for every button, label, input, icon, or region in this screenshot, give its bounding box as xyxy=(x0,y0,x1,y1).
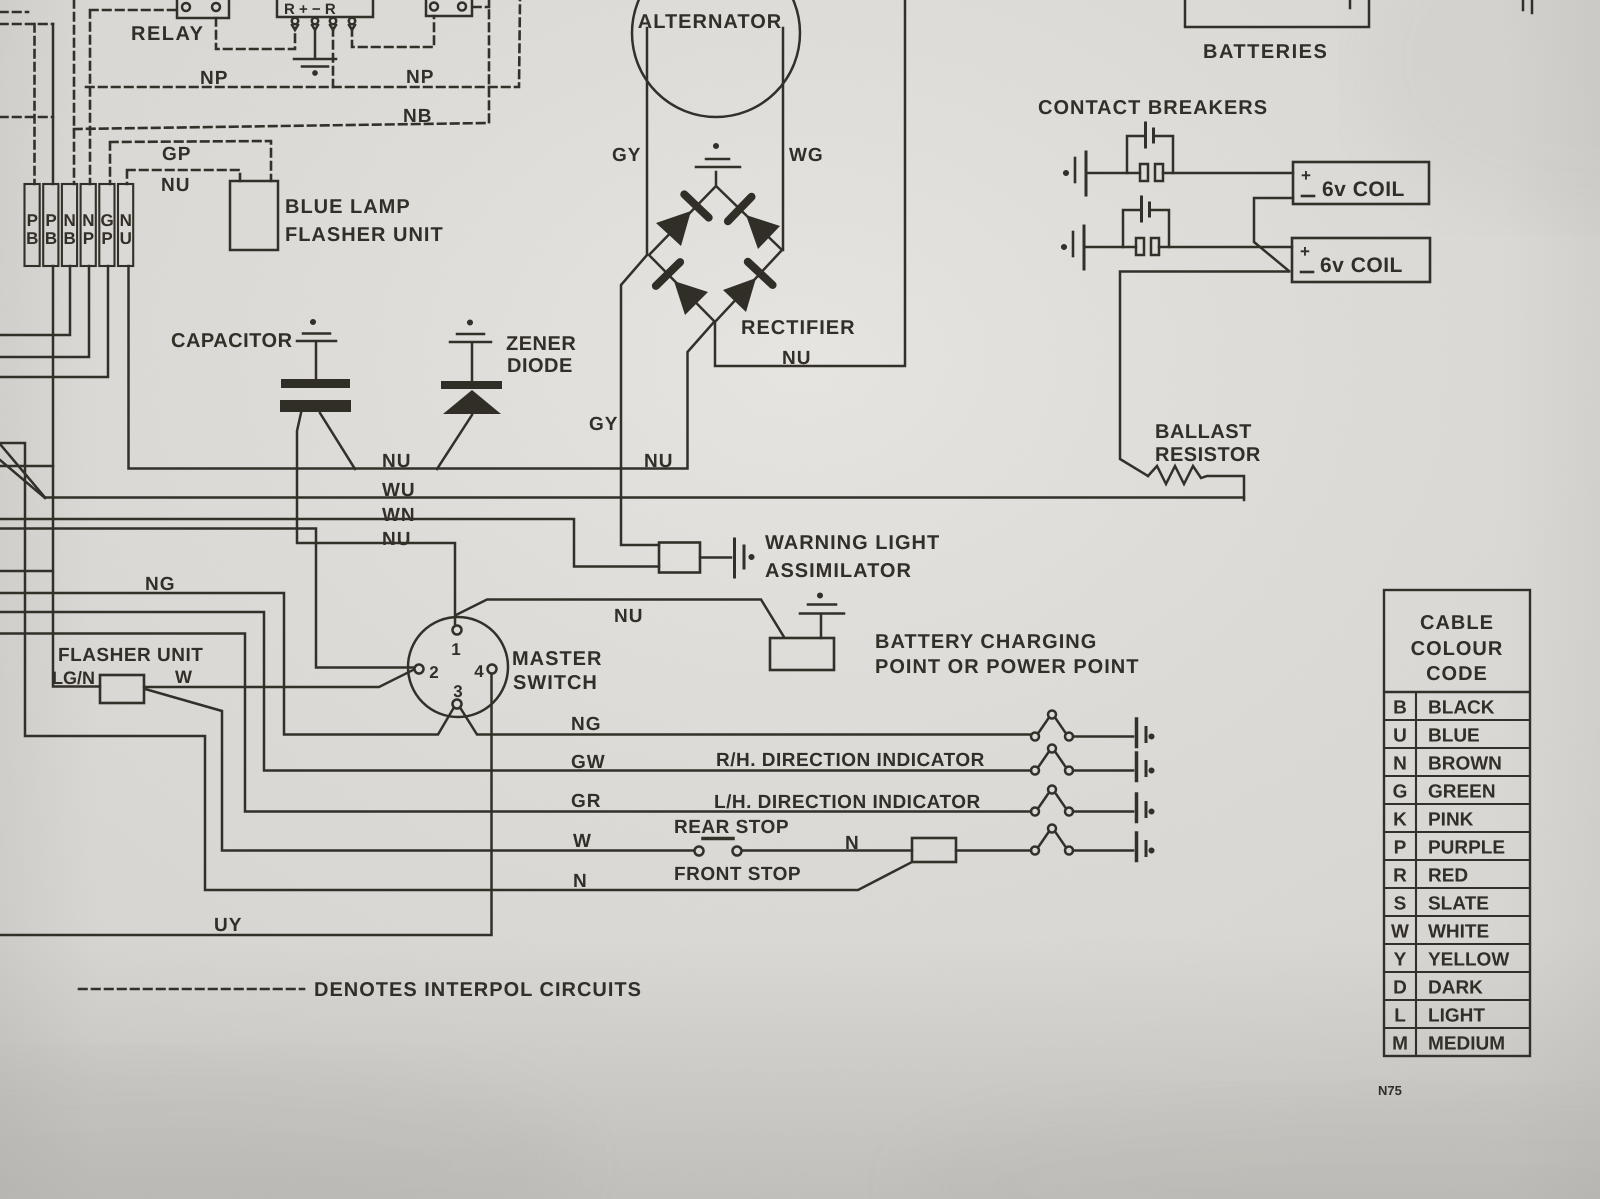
wire dashed strip3 riser xyxy=(73,0,76,184)
wire alternator WG lead xyxy=(782,28,785,250)
contact breaker 2 xyxy=(1084,197,1169,255)
svg-text:BLUE: BLUE xyxy=(1428,726,1480,747)
svg-text:LG/N: LG/N xyxy=(52,668,95,688)
master switch terminal 2 xyxy=(415,665,424,674)
svg-text:+: + xyxy=(1301,166,1311,185)
svg-text:BATTERY CHARGING: BATTERY CHARGING xyxy=(875,631,1097,653)
svg-text:4: 4 xyxy=(474,662,484,681)
svg-text:G: G xyxy=(100,211,113,230)
capacitor earth xyxy=(297,320,336,341)
svg-text:N: N xyxy=(120,211,132,230)
zener earth xyxy=(450,321,491,342)
svg-text:ASSIMILATOR: ASSIMILATOR xyxy=(765,560,912,582)
svg-text:S: S xyxy=(1394,894,1407,915)
svg-text:BROWN: BROWN xyxy=(1428,754,1502,775)
wire dashed box3 to NB xyxy=(473,6,489,9)
svg-text:Y: Y xyxy=(1394,950,1407,971)
svg-text:DARK: DARK xyxy=(1428,978,1483,999)
svg-text:WU: WU xyxy=(382,480,416,501)
assimilator terminal xyxy=(735,539,754,577)
svg-text:NU: NU xyxy=(644,451,673,472)
svg-text:6v COIL: 6v COIL xyxy=(1320,254,1403,277)
svg-text:CONTACT BREAKERS: CONTACT BREAKERS xyxy=(1038,97,1268,119)
svg-text:P: P xyxy=(45,211,56,230)
wire rectifier NU output right loop xyxy=(715,0,905,366)
flasher unit box xyxy=(100,675,144,703)
battery charging point earth xyxy=(800,594,844,638)
rectifier centre earth xyxy=(696,144,740,186)
svg-text:GW: GW xyxy=(571,752,606,773)
svg-text:NU: NU xyxy=(782,348,811,369)
wire master switch NU to charging point xyxy=(456,600,784,638)
svg-text:G: G xyxy=(1393,782,1408,803)
master switch terminal 3 xyxy=(453,700,462,709)
svg-text:MASTER: MASTER xyxy=(512,648,602,670)
svg-text:W: W xyxy=(1391,922,1409,943)
capacitor xyxy=(280,343,351,412)
svg-text:SLATE: SLATE xyxy=(1428,894,1489,915)
svg-text:RECTIFIER: RECTIFIER xyxy=(741,317,856,339)
svg-text:WN: WN xyxy=(382,505,416,526)
switch row GW xyxy=(1031,745,1133,775)
svg-text:B: B xyxy=(64,229,76,248)
wire NG net left and to terminal3 xyxy=(0,593,453,735)
svg-text:BLACK: BLACK xyxy=(1428,698,1495,719)
rectifier regulator box xyxy=(277,0,373,17)
wire coil2 minus to ballast xyxy=(1120,272,1289,477)
svg-text:W: W xyxy=(175,667,192,687)
svg-text:MEDIUM: MEDIUM xyxy=(1428,1034,1505,1055)
wire dashed NU to flasher box xyxy=(127,170,240,184)
svg-text:NU: NU xyxy=(382,451,411,472)
wire dashed regulator minus to NP xyxy=(332,28,335,87)
wire strip3 exit left xyxy=(0,266,70,335)
svg-text:+: + xyxy=(1300,242,1310,261)
svg-text:6v COIL: 6v COIL xyxy=(1322,178,1405,201)
battery charging point box xyxy=(770,638,834,670)
svg-text:NB: NB xyxy=(403,106,432,127)
wire flasher W to master terminal2 xyxy=(144,670,413,687)
svg-text:PURPLE: PURPLE xyxy=(1428,838,1505,859)
wire dashed strip5 riser xyxy=(110,141,271,184)
svg-text:R: R xyxy=(1393,866,1407,887)
wire master terminal2 feed xyxy=(0,529,414,668)
contact breaker 2 earth xyxy=(1062,226,1084,269)
battery terminal marks top right xyxy=(1523,0,1532,13)
switch row NG xyxy=(1031,711,1133,741)
wire capacitor left leg and NU2 line xyxy=(297,413,455,624)
svg-text:DIODE: DIODE xyxy=(507,355,573,377)
6v coil 1 xyxy=(1293,162,1429,204)
svg-text:GREEN: GREEN xyxy=(1428,782,1496,803)
wire strip5 exit left xyxy=(0,266,108,377)
svg-text:P: P xyxy=(27,211,38,230)
wire NU1 strip6 to rectifier xyxy=(129,266,715,469)
wire dashed horizontal to strip2 top xyxy=(0,23,53,26)
svg-text:K: K xyxy=(1393,810,1407,831)
svg-text:FLASHER UNIT: FLASHER UNIT xyxy=(58,645,203,666)
svg-text:GP: GP xyxy=(162,144,191,165)
wire dashed denotes-interpol sample xyxy=(79,988,304,991)
svg-text:BATTERIES: BATTERIES xyxy=(1203,41,1328,63)
svg-text:ALTERNATOR: ALTERNATOR xyxy=(638,11,782,33)
svg-text:RESISTOR: RESISTOR xyxy=(1155,444,1261,466)
svg-text:UY: UY xyxy=(214,915,242,936)
svg-text:B: B xyxy=(1393,698,1407,719)
svg-text:COLOUR: COLOUR xyxy=(1411,638,1504,660)
lamp terminal row NG xyxy=(1137,719,1154,747)
wire dashed NP line xyxy=(86,0,520,87)
lamp terminal row GW xyxy=(1137,753,1154,781)
contact breaker 1 earth xyxy=(1064,152,1086,195)
batteries box xyxy=(1185,0,1369,27)
svg-text:B: B xyxy=(45,229,57,248)
svg-text:2: 2 xyxy=(429,663,438,682)
svg-text:WHITE: WHITE xyxy=(1428,922,1489,943)
svg-text:N: N xyxy=(845,833,859,854)
svg-text:P: P xyxy=(83,229,94,248)
wire rear stop to fuse xyxy=(742,849,912,852)
wire dashed stub top-left xyxy=(0,11,28,14)
wire WU line xyxy=(45,496,1244,499)
ballast resistor zigzag xyxy=(1148,466,1244,500)
svg-text:P: P xyxy=(1394,838,1407,859)
svg-text:D: D xyxy=(1393,978,1407,999)
wire assimilator to terminal xyxy=(700,556,731,559)
wire GW net xyxy=(0,612,1031,771)
svg-text:N75: N75 xyxy=(1378,1083,1402,1098)
wire NB/GP dashed line xyxy=(74,0,489,129)
svg-text:NU: NU xyxy=(161,175,190,196)
wire zener leg xyxy=(437,415,472,469)
zener diode xyxy=(441,344,502,414)
svg-text:L/H. DIRECTION INDICATOR: L/H. DIRECTION INDICATOR xyxy=(714,792,981,813)
wire capacitor right leg xyxy=(320,413,355,469)
wire horizontal into strip2 vertical at y466 xyxy=(0,465,53,468)
lamp terminal row GR xyxy=(1137,794,1154,822)
svg-text:RED: RED xyxy=(1428,866,1468,887)
diode bottom-right xyxy=(723,262,773,312)
svg-text:DENOTES INTERPOL CIRCUITS: DENOTES INTERPOL CIRCUITS xyxy=(314,979,642,1001)
wire WN line to assimilator xyxy=(0,519,659,567)
wire left feed joining LG/N at y571 xyxy=(0,570,52,573)
svg-text:LIGHT: LIGHT xyxy=(1428,1006,1485,1027)
svg-text:NG: NG xyxy=(145,574,176,595)
svg-text:3: 3 xyxy=(453,682,462,701)
svg-text:BLUE LAMP: BLUE LAMP xyxy=(285,196,411,218)
rear stop contacts xyxy=(695,839,742,856)
svg-text:L: L xyxy=(1394,1006,1406,1027)
connector block xyxy=(25,184,134,266)
svg-text:BALLAST: BALLAST xyxy=(1155,421,1252,443)
contact breaker 1 xyxy=(1086,123,1173,181)
svg-text:N: N xyxy=(82,211,94,230)
svg-text:POINT OR POWER POINT: POINT OR POWER POINT xyxy=(875,656,1139,678)
fuse box stop lamps xyxy=(912,838,956,862)
wire dashed regulator R to box3 xyxy=(352,16,434,47)
wire diagonal feed into WU xyxy=(0,444,45,498)
diode top-left xyxy=(656,194,709,246)
svg-text:CAPACITOR: CAPACITOR xyxy=(171,330,293,352)
svg-text:RELAY: RELAY xyxy=(131,23,204,45)
master switch terminal 1 xyxy=(453,626,462,635)
svg-text:U: U xyxy=(120,229,132,248)
svg-text:B: B xyxy=(26,229,38,248)
diode bottom-left xyxy=(656,262,708,315)
switch row GR xyxy=(1031,786,1133,816)
wire dashed strip1 riser xyxy=(33,24,36,184)
master switch circle xyxy=(408,617,508,717)
svg-text:SWITCH: SWITCH xyxy=(513,672,598,694)
svg-text:PINK: PINK xyxy=(1428,810,1474,831)
svg-text:NU: NU xyxy=(382,529,411,550)
rectifier bridge diamond xyxy=(649,186,782,322)
svg-text:YELLOW: YELLOW xyxy=(1428,950,1509,971)
svg-text:P: P xyxy=(101,229,112,248)
svg-text:N: N xyxy=(573,871,587,892)
svg-text:GY: GY xyxy=(589,414,618,435)
svg-text:R/H. DIRECTION INDICATOR: R/H. DIRECTION INDICATOR xyxy=(716,750,985,771)
svg-text:W: W xyxy=(573,831,591,852)
wire alternator GY lead xyxy=(621,28,659,545)
wire strip2 to LG/N flasher feed xyxy=(53,24,100,687)
svg-text:GY: GY xyxy=(612,145,641,166)
alternator circle xyxy=(632,0,800,117)
blue lamp flasher unit box xyxy=(230,181,278,250)
wire fuse to switch row4 xyxy=(956,849,1031,852)
svg-text:CODE: CODE xyxy=(1426,663,1488,685)
svg-text:GR: GR xyxy=(571,791,602,812)
regulator terminal pins xyxy=(292,18,355,30)
svg-text:NG: NG xyxy=(571,714,602,735)
wire breaker1 to coil1 xyxy=(1163,172,1293,175)
wire coil1 minus to coil2 minus xyxy=(1254,198,1293,271)
svg-text:NU: NU xyxy=(614,606,643,627)
wire flasher W to rear stop xyxy=(145,689,694,851)
svg-text:N: N xyxy=(1393,754,1407,775)
wire strip4 exit left xyxy=(0,266,89,357)
warning light assimilator box xyxy=(659,543,700,573)
switch row W xyxy=(1031,825,1133,855)
master switch terminal 4 xyxy=(488,665,497,674)
wire GR net xyxy=(0,634,1031,812)
wire NG row right of terminal3 xyxy=(461,709,1030,735)
wire front-stop chain from left box xyxy=(25,466,912,890)
ammeter box xyxy=(426,0,472,16)
lamp terminal row W xyxy=(1137,833,1154,861)
svg-text:ZENER: ZENER xyxy=(506,333,576,355)
wire master terminal4 down to UY xyxy=(0,674,492,935)
svg-text:REAR STOP: REAR STOP xyxy=(674,817,789,838)
svg-text:CABLE: CABLE xyxy=(1420,612,1494,634)
cable colour code table xyxy=(1384,590,1530,1056)
node connector box at left edge xyxy=(0,443,25,466)
svg-text:U: U xyxy=(1393,726,1407,747)
svg-text:FLASHER UNIT: FLASHER UNIT xyxy=(285,224,444,246)
svg-text:1: 1 xyxy=(451,640,460,659)
svg-text:FRONT STOP: FRONT STOP xyxy=(674,864,801,885)
wire breaker2 to coil2 plus xyxy=(1159,246,1292,249)
svg-text:M: M xyxy=(1392,1034,1408,1055)
relay box xyxy=(177,0,229,18)
svg-text:WG: WG xyxy=(789,145,824,166)
wire dashed relay right leg xyxy=(216,18,295,49)
wire dashed strip4 riser to relay xyxy=(90,10,177,184)
svg-text:N: N xyxy=(64,211,76,230)
svg-text:NP: NP xyxy=(200,68,228,89)
diode top-right xyxy=(728,197,780,249)
regulator earth xyxy=(294,30,336,75)
wire dashed NP left end xyxy=(0,116,53,119)
svg-text:WARNING LIGHT: WARNING LIGHT xyxy=(765,532,940,554)
svg-text:NP: NP xyxy=(406,67,434,88)
svg-text:R + − R: R + − R xyxy=(284,1,336,18)
wire second diagonal feed xyxy=(0,460,45,498)
6v coil 2 xyxy=(1292,238,1430,282)
